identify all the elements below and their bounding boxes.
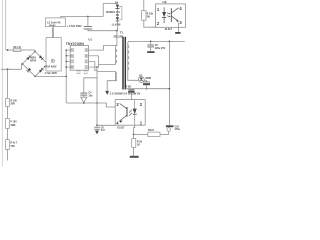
svg-text:LL4148: LL4148 xyxy=(112,23,121,26)
U1 bottom stub pin b xyxy=(85,70,87,74)
wire secondary return rail xyxy=(126,88,170,90)
node +V rail / output column xyxy=(169,41,171,43)
node return/output column xyxy=(169,88,171,90)
node EN filter xyxy=(96,124,98,126)
svg-text:R 5B: R 5B xyxy=(125,85,131,88)
svg-text:4.7uF 400V: 4.7uF 400V xyxy=(44,66,57,69)
svg-text:1N5B: 1N5B xyxy=(145,78,151,80)
svg-text:R107: R107 xyxy=(148,129,154,132)
wire node A down to rail xyxy=(96,67,98,103)
diode D4 (zener clamp) xyxy=(116,4,118,10)
svg-text:T1: T1 xyxy=(120,31,124,35)
inductor L1 label box xyxy=(46,18,66,27)
IC U1 body xyxy=(70,46,88,71)
wire bias bottom xyxy=(107,81,115,91)
fuse F1 xyxy=(13,49,21,52)
svg-text:20R: 20R xyxy=(10,103,15,106)
resistor R2 xyxy=(6,119,10,129)
capacitor C7 (small polarized) xyxy=(146,80,148,82)
U3 light arrows xyxy=(167,13,170,14)
resistor R5 (horizontal) xyxy=(148,132,160,136)
ground arrow (open) under C3 xyxy=(81,97,87,102)
wire secondary top to +V rail xyxy=(128,41,185,42)
U1 pin 8 left xyxy=(66,66,70,68)
wire R4 to U3 pin2 xyxy=(144,20,157,27)
resistor chain R1 xyxy=(6,69,8,98)
svg-text:1K: 1K xyxy=(137,144,140,147)
diode D3 (blocking) xyxy=(116,17,119,21)
node on return wire xyxy=(146,88,148,90)
wire output column xyxy=(168,41,170,125)
wire branch to bypass cap xyxy=(84,78,97,93)
wire feedback node down to R6 xyxy=(133,134,135,138)
svg-text:+VE: +VE xyxy=(162,1,167,4)
resistor R6 (vertical) xyxy=(132,139,136,148)
node C5 tap xyxy=(150,41,152,43)
U2 light arrows xyxy=(129,110,132,113)
optocoupler U2 body xyxy=(115,100,145,126)
bridge rectifier BR1 diamond xyxy=(23,52,48,77)
U1 pin 5 left xyxy=(66,49,70,51)
node feedback xyxy=(133,134,135,136)
svg-text:SIDAC: SIDAC xyxy=(49,24,56,27)
wire HV rail from L1 box to clamp xyxy=(61,4,118,18)
node AC2 dot xyxy=(7,68,9,70)
svg-text:470u: 470u xyxy=(175,128,181,131)
resistor R3 xyxy=(6,140,10,150)
wire secondary bottom to D2 xyxy=(128,73,139,80)
diode D2 (circled rectifier) xyxy=(138,77,144,83)
svg-text:1-2 SHOW 3-4 SHOW 5V: 1-2 SHOW 3-4 SHOW 5V xyxy=(110,92,141,96)
ground bar bottom xyxy=(130,156,139,158)
node rail dot xyxy=(83,102,85,104)
transformer core xyxy=(122,37,124,90)
svg-text:10n: 10n xyxy=(88,94,93,97)
U1 pin 6 left xyxy=(66,55,70,57)
U3 phototransistor xyxy=(170,8,172,22)
wire clamp parallel branch xyxy=(119,7,122,20)
svg-text:U1: U1 xyxy=(88,38,92,42)
resistor R4 wire from top xyxy=(143,0,145,11)
svg-text:EL817: EL817 xyxy=(117,126,125,129)
wire U2 pin1 down to feedback node xyxy=(134,125,135,134)
node AC1 dot xyxy=(7,49,9,51)
U1 pin 7 left xyxy=(66,60,70,62)
wire drain: U1 pin4 to primary top xyxy=(95,46,117,51)
inductor L1 coil xyxy=(52,27,54,38)
transformer bias winding xyxy=(115,71,117,80)
wire D2 out xyxy=(144,79,146,81)
transformer primary winding xyxy=(115,46,117,65)
wire chain end xyxy=(6,150,8,161)
U1 pin 4 right xyxy=(89,49,95,51)
wire C2 bottom to drain node xyxy=(88,31,117,46)
ground arrow (solid) bias return xyxy=(105,91,109,95)
node V1/rail crossing xyxy=(96,102,98,104)
wire U3 pin3 to ground xyxy=(178,23,180,33)
wire AC2 up to bridge left xyxy=(21,64,22,69)
node C2/rail junction xyxy=(87,16,89,18)
U1 pin 3 right xyxy=(89,55,99,57)
svg-text:220u 25V: 220u 25V xyxy=(155,47,166,50)
wire primary bottom to node A xyxy=(97,64,116,67)
svg-text:L2 1mH 4A: L2 1mH 4A xyxy=(47,21,61,25)
svg-text:4.7uF 400V: 4.7uF 400V xyxy=(45,72,58,75)
node clamp/drain junction xyxy=(116,30,118,32)
wire AC line2 xyxy=(1,68,21,70)
wire clamp bottom to drain wire xyxy=(116,21,118,31)
bridge diode 4 (bottom-right edge) xyxy=(39,68,44,73)
bridge diode 1 (top-left edge) xyxy=(26,56,31,61)
capacitor C8 (output electrolytic) xyxy=(166,125,174,127)
capacitor C3 (bypass) xyxy=(80,92,87,94)
wire primary ground rail xyxy=(66,103,115,107)
node A (drain lower junction) xyxy=(96,66,98,68)
svg-text:RF1 10: RF1 10 xyxy=(13,47,21,49)
wire U1 pin2 jog xyxy=(95,61,97,70)
svg-text:4n7: 4n7 xyxy=(101,129,106,132)
wire to R5 xyxy=(134,133,148,135)
wire fuse to bridge top xyxy=(21,49,35,51)
wire to U2 pin4 xyxy=(97,124,115,126)
node bus/bridge junction xyxy=(65,76,67,78)
wire V1 extension down xyxy=(96,103,98,125)
U1 bottom stub pin a xyxy=(78,70,80,74)
bridge diode 3 (bottom-left edge) xyxy=(27,68,32,73)
capacitor C2 xyxy=(87,16,89,26)
ground bar U3 xyxy=(175,32,180,34)
resistor R4 xyxy=(142,11,146,21)
capacitor C1 (bulk, box style) xyxy=(46,38,61,71)
optocoupler U3 body xyxy=(156,4,186,27)
U3 led xyxy=(162,12,166,17)
transformer secondary winding xyxy=(127,42,129,73)
U2 phototransistor xyxy=(126,107,128,117)
wire bias top xyxy=(97,70,116,72)
ground arrow (solid) EN filter xyxy=(95,131,99,135)
svg-text:72K: 72K xyxy=(10,145,15,148)
U1 pin 1 right xyxy=(89,66,97,68)
wire AC bus top-left vertical xyxy=(5,0,7,50)
bridge corner dots xyxy=(34,51,36,53)
ground bar (solid) under C5 xyxy=(147,51,154,53)
wire bridge bottom to source bus xyxy=(35,75,66,77)
wire R6 to ground xyxy=(133,147,135,156)
svg-text:+ 4.7uF 400V: + 4.7uF 400V xyxy=(67,25,83,28)
wire between clamp diodes xyxy=(116,10,118,18)
wire AC line1 to fuse xyxy=(6,49,14,51)
capacitor C6 (feedback top) xyxy=(130,89,132,90)
wire R5 to C8 xyxy=(160,133,169,135)
svg-text:EL817: EL817 xyxy=(165,28,173,31)
U2 led xyxy=(133,109,137,114)
capacitor C5 output filter xyxy=(150,41,152,45)
wire source bus left of U1 xyxy=(65,50,67,103)
frame border left xyxy=(1,0,3,166)
node bus pin dots xyxy=(65,49,67,51)
svg-text:4W8: 4W8 xyxy=(10,124,16,127)
wire U1 pin3 down to winding bottom wire xyxy=(98,56,100,65)
wire xyxy=(6,128,8,139)
U1 pin 2 right xyxy=(89,60,95,62)
wire xyxy=(6,106,8,118)
svg-text:DF04: DF04 xyxy=(30,60,37,63)
bridge diode 2 (top-right edge) xyxy=(39,55,44,60)
capacitor C6 (EN filter) xyxy=(94,126,100,128)
